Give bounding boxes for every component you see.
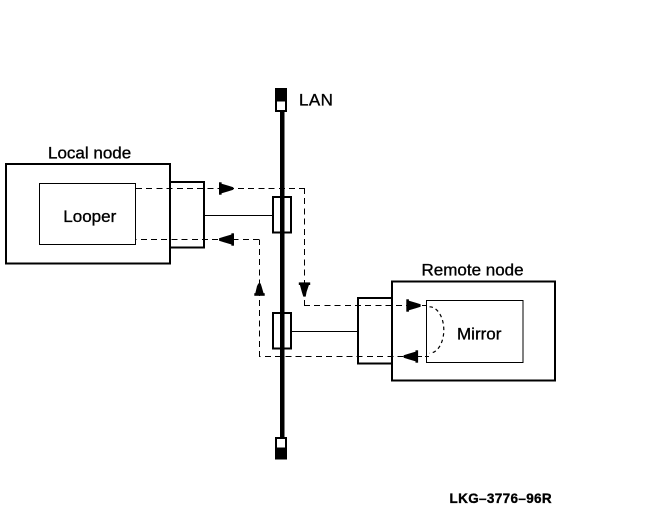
looper box (40, 184, 136, 245)
wire: return dashed horizontal to left vertical (259, 356, 404, 358)
svg-text:Looper: Looper (63, 207, 116, 226)
svg-text:Mirror: Mirror (457, 325, 502, 344)
lower tap (273, 313, 291, 349)
upper tap (273, 197, 291, 233)
LAN bus (280, 111, 285, 438)
wire: return dashed vertical x=259 (259, 240, 261, 358)
remote node box (392, 282, 555, 381)
mirror box (427, 301, 524, 363)
arrow down on forward vertical wire (299, 282, 310, 296)
local node box (6, 164, 170, 264)
svg-text:Remote node: Remote node (422, 261, 524, 280)
arrow left out of mirror (404, 350, 418, 362)
wire: forward dashed vertical x=304 (304, 188, 306, 306)
LAN terminator bottom (275, 438, 287, 460)
wire: forward dashed horizontal into remote node (304, 305, 420, 307)
arrow left into looper (219, 233, 234, 245)
LAN terminator top (275, 88, 287, 111)
arrow up on return vertical wire (254, 283, 264, 295)
remote drop cable (291, 331, 358, 333)
wire: forward dashed, looper to bus top (136, 188, 304, 190)
local drop cable (204, 215, 273, 217)
svg-text:Local node: Local node (48, 144, 131, 163)
local adapter (170, 182, 204, 248)
mirror loopback dashed arc (430, 307, 444, 353)
svg-text:LAN: LAN (299, 91, 333, 110)
svg-text:LKG–3776–96R: LKG–3776–96R (450, 491, 553, 506)
remote adapter (358, 298, 392, 364)
wire: return stub out of mirror box (418, 356, 429, 358)
arrow right into mirror (406, 299, 420, 311)
arrow right on forward top wire (219, 182, 233, 194)
wire: stub into mirror box (422, 305, 429, 307)
wire: return dashed horizontal into looper (136, 239, 259, 241)
